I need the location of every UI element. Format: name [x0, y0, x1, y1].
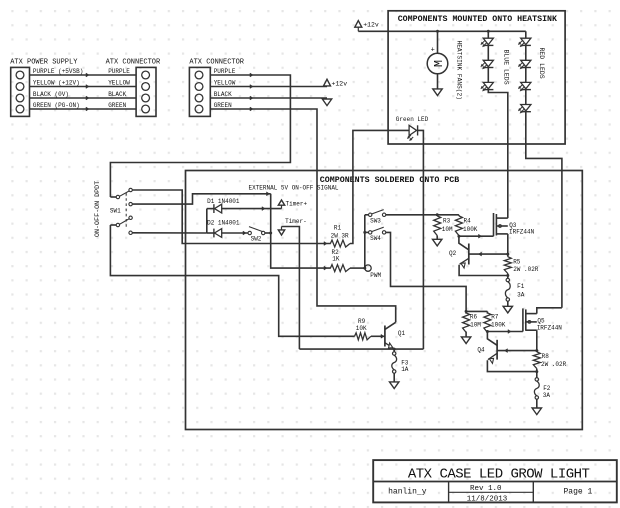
wire emitter rail to green LED return — [299, 348, 423, 350]
svg-text:SW2: SW2 — [251, 236, 262, 243]
wire D1-D2 cathode tie — [206, 209, 208, 233]
wire R7 bottom to gate node 2 — [486, 331, 488, 334]
wire red 2-3 — [525, 68, 527, 83]
svg-text:PURPLE: PURPLE — [108, 68, 130, 75]
wire R6 R7 tops tie — [466, 310, 487, 312]
transistor Q4 collector — [487, 332, 497, 346]
svg-text:Timer-: Timer- — [285, 218, 307, 225]
junction R6 top — [465, 310, 468, 313]
wire fan top lead — [437, 31, 439, 53]
wire SW3 to R3 R4 tops — [386, 214, 459, 216]
svg-text:D2 1N4001: D2 1N4001 — [207, 220, 240, 227]
wire yellow +12V psu to connector — [30, 86, 137, 88]
mosfet Q3 body stub — [496, 225, 507, 227]
svg-text:GREEN (PG-ON): GREEN (PG-ON) — [33, 102, 80, 109]
svg-text:RED LEDS: RED LEDS — [538, 48, 545, 79]
svg-text:Page 1: Page 1 — [564, 487, 593, 496]
wire blue 2-3 — [487, 68, 489, 83]
junction R3 top — [436, 213, 439, 216]
wire Q3 source to R5 — [507, 234, 509, 257]
switch SW4 — [365, 231, 369, 233]
svg-text:ON-OFF-ON DPDT: ON-OFF-ON DPDT — [94, 181, 102, 237]
resistor R3 10M — [436, 215, 438, 216]
ATX connector box J3 — [189, 67, 210, 116]
ground symbol F2 — [532, 408, 541, 415]
svg-text:BLACK: BLACK — [108, 91, 126, 98]
svg-text:ATX CASE LED GROW LIGHT: ATX CASE LED GROW LIGHT — [408, 467, 590, 483]
resistor R4 100K — [458, 215, 460, 216]
svg-text:ATX POWER SUPPLY: ATX POWER SUPPLY — [10, 58, 78, 66]
mosfet Q3 source stub — [496, 233, 507, 235]
wire purple +5VSB to SW1 — [110, 75, 290, 196]
heatsink enclosure box — [388, 11, 565, 144]
svg-text:BLACK (0V): BLACK (0V) — [33, 91, 69, 98]
wire Q1 emitter to F3 — [393, 349, 395, 352]
wire Q4 emitter to R8 bottom — [487, 360, 536, 371]
junction fan drop — [436, 30, 439, 33]
svg-text:10M: 10M — [442, 226, 453, 233]
wire R4 bottom to gate node — [458, 235, 460, 238]
ground symbol R3 — [433, 239, 442, 246]
wire red 1-2 — [525, 45, 527, 60]
port Timer+ symbol — [281, 205, 283, 208]
svg-text:HEATSINK FANS(2): HEATSINK FANS(2) — [455, 41, 462, 100]
transistor Q4 emitter — [488, 353, 497, 359]
junction PWM node — [363, 267, 366, 270]
svg-text:Rev 1.0: Rev 1.0 — [470, 485, 502, 493]
junction gate node — [457, 235, 460, 238]
svg-text:11/8/2013: 11/8/2013 — [467, 496, 508, 504]
wire D1 anode to Timer+ — [222, 208, 282, 210]
ground symbol fan — [433, 89, 442, 96]
transistor Q2 emitter — [460, 258, 469, 264]
svg-text:R7: R7 — [491, 313, 499, 320]
wire D2 anode to SW2 — [222, 232, 248, 234]
PCB enclosure box — [186, 171, 583, 430]
mosfet Q5 IRFZ44N gate bar — [522, 308, 524, 331]
mosfet Q3 IRFZ44N gate bar — [493, 213, 495, 236]
transistor Q1 collector — [385, 322, 396, 329]
junction blue string drop — [487, 30, 490, 33]
mosfet Q5 body stub — [526, 321, 537, 323]
wire Q2 emitter to R5 bottom — [459, 265, 508, 276]
resistor R8 2W .02R — [533, 352, 540, 369]
svg-text:R6: R6 — [470, 313, 478, 320]
led red LED 1 — [521, 38, 531, 44]
junction gate node 2 — [486, 330, 489, 333]
fan M1 heatsink fan motor — [427, 53, 448, 74]
wire R1 right up to green LED — [350, 130, 409, 243]
title block divider v1 — [448, 482, 450, 503]
svg-text:R5: R5 — [513, 258, 521, 265]
wire green PG-ON to Q1 collector — [210, 109, 395, 322]
svg-text:PWM: PWM — [370, 272, 381, 279]
wire SW1 poleB common down to R9 feed — [110, 225, 354, 336]
svg-text:+12v: +12v — [363, 21, 379, 28]
transistor Q2 base wire to R5 top — [469, 253, 508, 255]
svg-text:Timer+: Timer+ — [286, 201, 308, 208]
junction SW4 left — [363, 231, 366, 234]
transistor Q4 base wire to R8 top — [497, 350, 537, 352]
SW1 mechanical link (dashed) — [125, 193, 127, 229]
title block divider v2 — [532, 482, 534, 503]
svg-text:2W 3R: 2W 3R — [331, 233, 349, 240]
wire blue string top lead — [487, 31, 489, 38]
svg-text:1K: 1K — [332, 256, 340, 263]
wire SW4 to lower channel — [386, 232, 466, 311]
svg-text:R8: R8 — [542, 353, 550, 360]
resistor R7 100K — [486, 311, 488, 313]
wire R9 to Q1 base — [371, 335, 385, 337]
svg-text:D1 1N4001: D1 1N4001 — [207, 198, 240, 205]
wire red 3-4 — [525, 90, 527, 105]
wire Timer- to emitter rail — [282, 227, 300, 350]
svg-text:SW4: SW4 — [370, 235, 381, 242]
wire F3 to ground — [393, 373, 395, 382]
switch SW1 pole B — [116, 223, 119, 226]
ATX connector box J2 — [136, 67, 156, 116]
wire PWM node up to SW3/SW4 — [364, 215, 366, 268]
fuse F3 1A — [393, 352, 396, 355]
switch SW1 pole A lower throw — [129, 202, 132, 205]
wire R2 right to PWM — [350, 267, 365, 269]
svg-text:F1: F1 — [517, 283, 525, 290]
wire SW1 poleA lower throw to diode loop — [132, 194, 271, 204]
transistor Q4 body — [496, 340, 498, 360]
junction R8 bottom — [535, 370, 538, 373]
svg-text:BLUE LEDS: BLUE LEDS — [502, 50, 509, 85]
svg-text:IRFZ44N: IRFZ44N — [537, 324, 563, 331]
svg-text:BLACK: BLACK — [214, 91, 232, 98]
led blue LED 3 — [483, 82, 493, 88]
wire R6 to ground — [465, 332, 467, 337]
title block divider horizontal — [373, 481, 617, 483]
wire R5 bottom to F1 — [507, 274, 509, 279]
transistor Q1 emitter — [385, 343, 394, 349]
resistor R2 1K — [330, 265, 350, 272]
wire black 0V psu to connector — [30, 97, 137, 99]
svg-text:2W .02R: 2W .02R — [513, 266, 539, 273]
transistor Q1 body — [384, 326, 386, 347]
mosfet Q5 source stub — [526, 329, 537, 331]
switch SW2 — [248, 231, 251, 234]
wire arrow to R1 — [324, 242, 327, 246]
svg-text:PURPLE: PURPLE — [214, 68, 236, 75]
wire blue 1-2 — [487, 45, 489, 60]
svg-text:COMPONENTS SOLDERED ONTO PCB: COMPONENTS SOLDERED ONTO PCB — [320, 176, 459, 185]
wire stub common A — [109, 196, 111, 198]
led red LED 4 — [521, 105, 531, 111]
svg-text:SW1: SW1 — [110, 208, 121, 215]
svg-text:2W .02R: 2W .02R — [541, 361, 567, 368]
fuse F1 3A — [506, 278, 509, 281]
svg-text:3A: 3A — [517, 291, 525, 298]
switch SW3 — [365, 214, 369, 216]
svg-text:PURPLE (+5VSB): PURPLE (+5VSB) — [33, 68, 83, 75]
svg-text:Q1: Q1 — [398, 330, 406, 337]
wire red string return to Q5 drain — [526, 112, 562, 308]
wire loop down to R2 feed — [271, 194, 331, 268]
resistor R9 10K — [355, 333, 371, 340]
wire purple +5VSB psu to connector — [30, 74, 137, 76]
switch SW1 pole B lower throw — [129, 231, 132, 234]
wire green PG-ON psu to connector — [30, 108, 137, 110]
wire F2 to ground — [536, 399, 538, 408]
resistor R1 2W 3R — [330, 240, 350, 247]
led blue LED 1 — [483, 38, 493, 44]
svg-text:SW3: SW3 — [370, 217, 381, 224]
junction Q4 base at R8 top — [535, 349, 538, 352]
wire R8 bottom junction — [536, 369, 538, 378]
wire F1 to ground — [507, 301, 509, 306]
svg-text:hanlin_y: hanlin_y — [388, 487, 427, 496]
port PWM circle — [365, 265, 371, 271]
fuse F2 3A — [535, 378, 538, 381]
ATX power supply box J1 — [11, 67, 30, 116]
ground symbol R6 — [461, 337, 470, 344]
ground symbol (ATX 0V) — [322, 99, 331, 106]
junction Q2 base at R5 top — [506, 253, 509, 256]
wire gate node to Q3 gate — [459, 235, 494, 237]
power +12V symbol (heatsink) — [355, 21, 362, 28]
svg-text:IRFZ44N: IRFZ44N — [509, 229, 535, 236]
mosfet Q5 channel bar — [525, 309, 527, 330]
svg-text:Q4: Q4 — [477, 346, 485, 353]
svg-text:1A: 1A — [401, 366, 409, 373]
mosfet Q3 channel bar — [495, 214, 497, 236]
title block frame — [373, 460, 617, 502]
wire SW1 poleA upper throw to R1 — [132, 190, 331, 244]
resistor R6 10M — [465, 311, 467, 313]
svg-text:EXTERNAL 5V ON-OFF SIGNAL: EXTERNAL 5V ON-OFF SIGNAL — [249, 184, 339, 191]
svg-text:YELLOW: YELLOW — [214, 80, 236, 87]
wire arrow to R2 — [324, 266, 327, 270]
wire gate node 2 to Q5 gate — [487, 331, 523, 333]
svg-text:R1: R1 — [334, 225, 342, 232]
power +12V symbol (ATX) — [324, 79, 331, 86]
diode D2 1N4001 — [207, 232, 214, 234]
svg-text:100K: 100K — [463, 226, 478, 233]
svg-text:+12v: +12v — [332, 80, 348, 87]
wire SW1 poleB lower throw to D2 cathode — [132, 232, 207, 234]
svg-text:F2: F2 — [543, 385, 551, 392]
svg-text:ATX CONNECTOR: ATX CONNECTOR — [189, 58, 244, 66]
wire Q5 source to R8 — [536, 330, 538, 352]
diode D1 1N4001 — [207, 208, 214, 210]
ground symbol F3 — [390, 382, 399, 389]
led blue LED 2 — [483, 60, 493, 66]
wire green LED cathode down to emitter rail — [418, 130, 424, 349]
svg-text:10M: 10M — [470, 322, 481, 329]
junction SW2-loop — [269, 232, 272, 235]
svg-text:ATX CONNECTOR: ATX CONNECTOR — [106, 58, 161, 66]
wire stub common B — [110, 224, 116, 226]
led red LED 2 — [521, 60, 531, 66]
wire arrow on loop — [267, 192, 270, 196]
wire blue string return to Q3 drain — [488, 90, 508, 219]
svg-text:R3: R3 — [443, 217, 451, 224]
svg-text:Green LED: Green LED — [396, 116, 429, 123]
svg-text:Q2: Q2 — [449, 250, 457, 257]
wire yellow +12V — [210, 86, 327, 88]
led red LED 3 — [521, 82, 531, 88]
mosfet Q3 drain stub — [496, 217, 507, 219]
transistor Q2 collector — [459, 236, 469, 250]
svg-text:10K: 10K — [356, 325, 367, 332]
wire Q5 drain to red LED return — [537, 308, 562, 314]
junction Q1 emitter node — [393, 348, 396, 351]
svg-text:M: M — [432, 60, 446, 67]
svg-text:100K: 100K — [491, 322, 506, 329]
wire black 0V — [210, 97, 327, 99]
wire red string top lead — [525, 31, 527, 38]
svg-text:YELLOW (+12V): YELLOW (+12V) — [33, 80, 80, 87]
ground symbol F1 — [503, 306, 512, 313]
svg-text:GREEN: GREEN — [214, 102, 232, 109]
port Timer- symbol — [281, 227, 283, 230]
wire +12V bus — [358, 30, 526, 32]
led Green LED symbol — [409, 125, 417, 135]
svg-text:GREEN: GREEN — [108, 102, 126, 109]
resistor R5 2W .02R — [504, 257, 511, 274]
mosfet Q5 drain stub — [526, 313, 537, 315]
junction R5 bottom — [506, 274, 509, 277]
wire fan bottom lead — [437, 74, 439, 89]
svg-text:R4: R4 — [464, 217, 472, 224]
svg-text:COMPONENTS MOUNTED ONTO HEATSI: COMPONENTS MOUNTED ONTO HEATSINK — [398, 15, 557, 24]
title block divider mid — [449, 491, 534, 493]
svg-text:3A: 3A — [543, 392, 551, 399]
svg-text:YELLOW: YELLOW — [108, 80, 130, 87]
wire R3 to ground — [436, 236, 438, 240]
wire SW2 to loop — [265, 232, 271, 234]
transistor Q2 body — [468, 244, 470, 265]
switch SW1 pole A — [116, 195, 119, 198]
